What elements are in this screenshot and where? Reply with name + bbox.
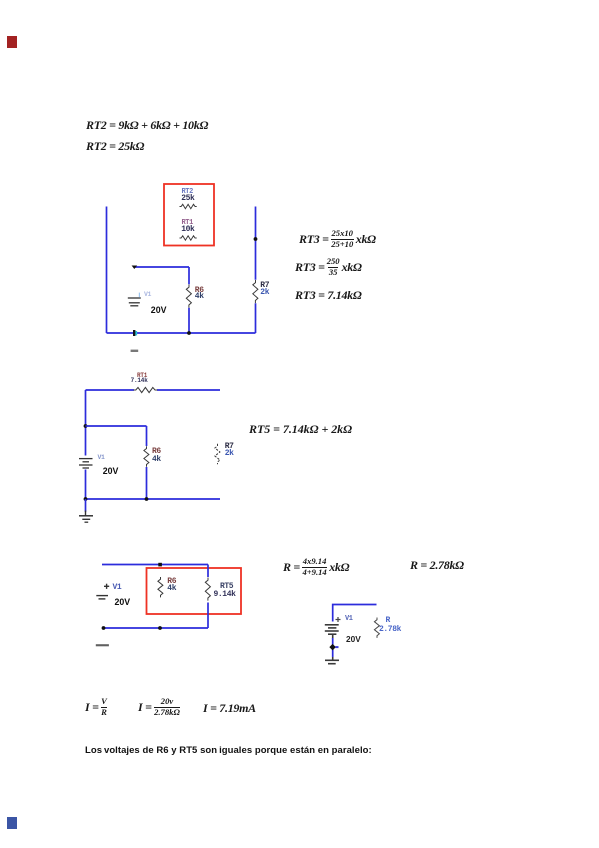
resistor R6 4k symbol c1	[186, 285, 191, 308]
resistor R7 2k symbol c2 (floating)	[215, 444, 220, 464]
wire below battery c4	[332, 638, 334, 657]
label RT2 (in box)	[182, 189, 193, 196]
label 4k c2	[152, 456, 161, 464]
wire right vertical c3 (gap for RT5)	[207, 565, 209, 629]
label R7 c2	[225, 443, 234, 451]
equation RT3 = 7.14k	[295, 284, 362, 308]
label 20V c4	[346, 635, 361, 643]
wire bottom c3	[102, 627, 208, 629]
equation I = V/R	[85, 696, 109, 720]
wire middle vertical c1 (with gap for R6)	[188, 267, 190, 333]
label R7 c1	[260, 282, 269, 290]
node dot middle-left c1	[132, 266, 138, 270]
wire left vertical c2 (gap for battery)	[85, 390, 87, 499]
battery V1 c1	[128, 298, 141, 306]
node dot on right wire c1	[254, 237, 258, 241]
label 7.14k c2	[131, 378, 148, 384]
label R c4	[386, 617, 390, 625]
node dot bottom-left c2	[84, 497, 88, 501]
equation R = 2.78k	[410, 554, 464, 578]
label RT1 c2	[137, 373, 147, 379]
page corner mark bottom-left (blue)	[7, 817, 17, 829]
wire middle vertical c2 (gap for R6)	[146, 426, 148, 499]
resistor R 2.78k symbol c4 (floating)	[374, 618, 379, 638]
node dot bottom-middle c2	[145, 497, 149, 501]
label R6 c3	[167, 578, 176, 586]
node dot bottom-middle c3	[158, 626, 162, 630]
page corner mark top-left (red)	[7, 36, 17, 48]
ground c4	[325, 657, 339, 664]
wire top c3	[102, 564, 208, 566]
red highlight box around RT2/RT1	[164, 184, 214, 246]
wire bottom c1	[107, 332, 256, 334]
equation RT2 = 9k + 6k + 10k	[86, 113, 208, 137]
equation RT3 = 250/35	[295, 255, 362, 279]
minus dash below battery c1	[131, 350, 139, 352]
label 20V c3	[115, 598, 131, 607]
label 9.14k c3	[214, 591, 236, 599]
label V1 c1 (faint)	[144, 292, 151, 299]
wire middle horizontal c2	[86, 425, 147, 427]
plus sign c4	[336, 617, 341, 622]
label 4k c1	[195, 293, 204, 301]
equation R fraction 4x9.14/4+9.14	[283, 555, 349, 579]
label R6 c1	[195, 287, 204, 295]
label RT1 (in box)	[182, 220, 193, 227]
node dot mid-left c2	[84, 424, 88, 428]
equation RT2 = 25k	[86, 135, 144, 159]
label R6 c2	[152, 448, 161, 456]
label V1 c3	[113, 584, 122, 592]
label 10k (in box)	[181, 226, 194, 234]
equation RT5 = 7.14k + 2k	[249, 417, 352, 441]
wire top c4	[333, 605, 377, 622]
label 20V c1	[151, 306, 167, 315]
label 20V c2	[103, 467, 119, 476]
red highlight box c3	[147, 568, 242, 614]
label 4k c3	[167, 585, 176, 593]
bottom sentence	[85, 745, 372, 756]
node square top c3	[158, 563, 162, 567]
battery V1 c3 with plus	[96, 584, 109, 599]
label RT5 c3	[220, 583, 233, 591]
label 25k (in box)	[181, 195, 194, 203]
label V1 c4	[345, 616, 353, 623]
connector mark on bottom wire c1	[133, 330, 137, 336]
junction diamond c4	[329, 644, 338, 651]
label 2k c2	[225, 450, 234, 458]
wire top c2 with gap for RT1	[86, 389, 221, 391]
wire bottom c2	[86, 498, 221, 500]
resistor RT1 7.14k symbol c2	[134, 387, 158, 392]
resistor RT1 10k symbol (in box)	[180, 236, 197, 240]
resistor R6 4k symbol c3 (in box)	[158, 577, 163, 597]
resistor RT2 25k symbol (in box)	[180, 204, 197, 208]
resistor RT5 9.14k symbol c3	[205, 578, 210, 601]
wire right vertical c1 (with gap for R7)	[255, 207, 257, 334]
wire middle horizontal c1	[134, 266, 189, 268]
label V1 c2 (faint)	[98, 455, 105, 462]
node dot bottom-left c3	[102, 626, 106, 630]
node dot bottom middle c1	[187, 331, 191, 335]
equation I = 20v/2.78k	[138, 696, 182, 720]
faint tick above battery c1	[139, 293, 140, 298]
equation I = 7.19mA	[203, 696, 256, 720]
label 2.78k c4	[379, 626, 401, 634]
battery V1 c2	[79, 459, 93, 468]
resistor R6 4k symbol c2	[144, 446, 149, 466]
minus dash below battery c3	[96, 644, 109, 646]
label 2k c1	[260, 289, 269, 297]
battery V1 c4	[325, 625, 339, 639]
equation RT3 fraction 25x10/25+10	[299, 227, 376, 251]
ground c2	[79, 499, 93, 522]
resistor R7 2k symbol c1	[253, 280, 258, 303]
wire left vertical c1	[106, 207, 108, 334]
